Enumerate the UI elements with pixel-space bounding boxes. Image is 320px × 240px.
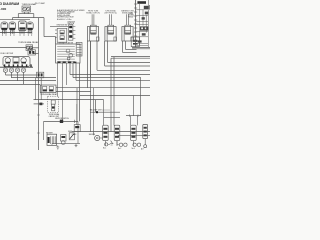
svg-text:PILOT LAMP: PILOT LAMP xyxy=(35,2,46,5)
svg-text:No.1: No.1 xyxy=(103,148,106,150)
wire lamp3 drop b xyxy=(126,41,137,50)
label lamp L4 xyxy=(121,10,134,15)
wire cluster drops xyxy=(0,72,56,84)
svg-text:CB-000: CB-000 xyxy=(0,7,6,11)
connector small left xyxy=(72,104,80,136)
wire connector drops xyxy=(36,78,42,100)
plug pair 1 xyxy=(103,143,110,150)
ignition coil C2 xyxy=(114,125,120,146)
diode box D1 xyxy=(131,37,139,47)
wire top bus xyxy=(13,18,45,20)
wire box drop c xyxy=(76,63,150,80)
pilot bulbs row xyxy=(3,68,25,72)
wire long bottom bus xyxy=(72,132,150,136)
wire battery bottom xyxy=(52,144,80,146)
contact box K1 xyxy=(55,28,67,42)
label TURN SIGNAL PILOT LAMP xyxy=(22,2,46,6)
control unit internals xyxy=(136,0,150,47)
svg-text:W=WHITE LB=LT BLUE: W=WHITE LB=LT BLUE xyxy=(57,17,74,19)
wire double feed xyxy=(111,57,150,132)
switch cluster housing xyxy=(3,57,30,67)
ground fuse side xyxy=(75,144,78,147)
svg-text:TURN SIGNAL RELAY: TURN SIGNAL RELAY xyxy=(18,41,39,44)
title text WIRING DIAGRAM xyxy=(0,2,19,11)
svg-text:No.2: No.2 xyxy=(118,148,121,150)
wire lamp L4 lead xyxy=(127,14,129,25)
svg-text:LIGHT FRONT (L): LIGHT FRONT (L) xyxy=(104,12,117,14)
svg-text:RING DIAGRAM: RING DIAGRAM xyxy=(0,2,19,6)
wire battery top bus xyxy=(44,88,78,144)
lamp L4 bulb xyxy=(122,25,134,41)
wire lamp3 drop a xyxy=(123,41,137,53)
wire box drop d xyxy=(80,63,150,121)
wire lamp2 drop b xyxy=(108,41,150,63)
sensor circle xyxy=(89,134,103,141)
svg-text:FRONT TURN: FRONT TURN xyxy=(88,11,99,13)
label relay xyxy=(40,93,58,96)
wire lamp1 drop a xyxy=(86,41,88,88)
wire harness mid vertical xyxy=(90,41,92,132)
ground battery xyxy=(56,145,59,149)
wire bottom bus2 xyxy=(126,77,141,117)
wire lamp1 drop b xyxy=(90,41,92,77)
connector T-bar xyxy=(34,103,44,106)
connector tab right xyxy=(76,42,82,56)
label bottom unit xyxy=(90,109,110,112)
combination meter cluster xyxy=(0,20,33,31)
label handlebar switch xyxy=(1,53,14,55)
wire harness ticks xyxy=(37,115,40,133)
label IGNITION SWITCH xyxy=(57,21,76,26)
svg-text:FUSE: FUSE xyxy=(68,131,72,133)
svg-text:CONN: CONN xyxy=(72,134,76,136)
control unit block U1 xyxy=(132,0,150,49)
wire mid bus xyxy=(56,63,91,96)
relay box xyxy=(40,85,56,93)
wire lamp1 drop c xyxy=(97,41,150,70)
label lamp L3 xyxy=(104,10,117,15)
main fuse xyxy=(68,131,74,140)
svg-text:FUEL UNIT SW: FUEL UNIT SW xyxy=(1,53,14,55)
label left of block xyxy=(128,13,134,19)
wire ignition feed xyxy=(50,26,69,28)
wire pilot lamp leads xyxy=(18,12,34,18)
meter cluster pins xyxy=(2,30,31,34)
ignition coil C1 xyxy=(103,125,109,146)
wire spark drop xyxy=(62,63,64,121)
ignition coil C3 xyxy=(131,125,137,146)
lamp L2 bulb xyxy=(87,25,99,41)
resistor comp R1 bottom right xyxy=(141,124,148,150)
label lamp L2 xyxy=(86,11,100,15)
wire low bus xyxy=(34,100,104,112)
wire branch to ignition switch xyxy=(44,18,56,44)
wire meter bus xyxy=(0,32,32,34)
lamp L3 bulb xyxy=(105,25,117,41)
starter relay comp xyxy=(61,135,66,145)
wire bottom bus1 xyxy=(90,111,120,113)
label control unit xyxy=(137,1,146,4)
connector pair mid xyxy=(37,72,44,78)
wire switch left xyxy=(0,47,26,49)
wire relay out xyxy=(56,63,150,88)
switch cluster pins xyxy=(0,64,33,67)
svg-text:SENSOR: SENSOR xyxy=(89,134,96,136)
svg-text:G=GREEN P=PINK: G=GREEN P=PINK xyxy=(57,13,72,15)
ignition switch strip xyxy=(69,25,76,41)
wire lamp L2 lead xyxy=(92,14,94,25)
label spark unit xyxy=(49,113,60,118)
control unit pins xyxy=(134,4,137,44)
wire box drop b xyxy=(73,63,141,78)
wire main harness vertical xyxy=(38,18,40,150)
plug pair 2 xyxy=(117,141,127,150)
ground coil mid xyxy=(110,141,114,145)
spark unit dashed box xyxy=(48,96,59,112)
svg-text:No.3: No.3 xyxy=(132,148,135,150)
indicator lamp box L1 xyxy=(22,6,31,12)
wire stub A xyxy=(33,53,38,55)
connector box small xyxy=(28,48,35,55)
label battery group xyxy=(55,118,70,120)
wire switch right xyxy=(33,47,39,49)
wire coil feeds xyxy=(94,88,138,136)
wire lamp L3 lead xyxy=(110,14,112,25)
connector box meter xyxy=(56,41,80,63)
plug pair 3 xyxy=(132,143,141,150)
label TURN SIGNAL SWITCH xyxy=(18,41,39,44)
wire meter drops xyxy=(2,33,31,36)
battery BAT1 xyxy=(46,132,57,146)
note wire color legend xyxy=(57,9,84,21)
wire box drop a xyxy=(70,63,150,75)
svg-text:TURN SIGNAL RELAY: TURN SIGNAL RELAY xyxy=(40,93,58,96)
wire lamp2 drop a xyxy=(105,41,150,66)
switch S1 xyxy=(26,45,33,51)
